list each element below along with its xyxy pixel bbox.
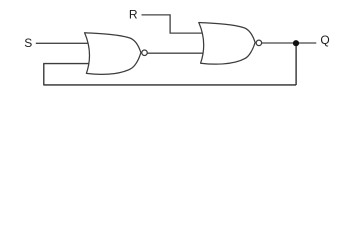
output bubble U2 <box>256 40 262 46</box>
svg-text:S: S <box>24 36 32 50</box>
wire feedback bottom rail <box>44 84 296 86</box>
svg-text:Q: Q <box>320 33 329 47</box>
junction dot at Q node <box>293 40 299 46</box>
wire R vertical drop <box>169 14 171 33</box>
wire R horizontal from R label <box>142 14 171 16</box>
wire feedback into U1 pin 2 <box>43 63 91 65</box>
wire S input to U1 pin 1 <box>36 42 90 44</box>
wire feedback left riser <box>43 64 45 86</box>
NOR gate U2 body <box>199 23 255 65</box>
wire U2 output to Q <box>262 42 317 44</box>
NOR gate U1 body <box>85 33 141 75</box>
svg-text:R: R <box>129 8 138 22</box>
wire R into U2 pin 1 <box>170 32 204 34</box>
output bubble U1 <box>142 50 148 56</box>
wire feedback right riser from Q junction <box>295 43 297 85</box>
wire U1 output to U2 pin 2 <box>147 52 204 54</box>
